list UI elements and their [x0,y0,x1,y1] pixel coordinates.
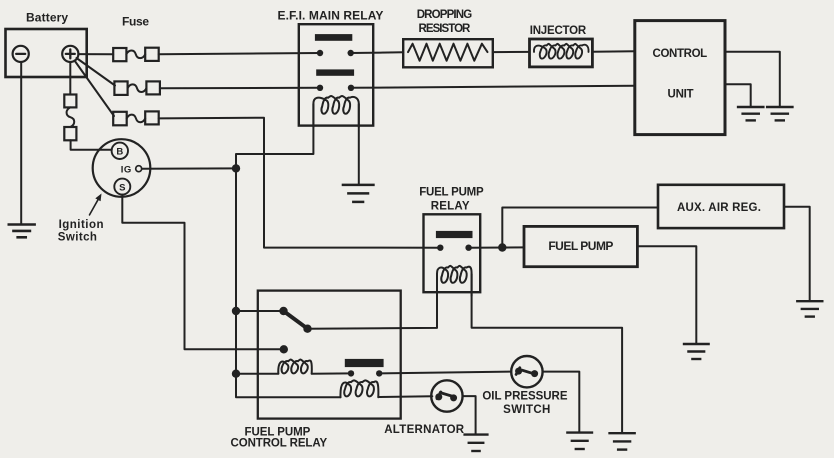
svg-text:ALTERNATOR: ALTERNATOR [384,424,465,436]
svg-text:IG: IG [121,164,132,175]
control unit box [635,21,725,135]
svg-text:INJECTOR: INJECTOR [530,25,588,37]
wire E.F.I. relay to control unit [351,86,635,88]
ignition switch terminal B [112,143,128,159]
E.F.I. main relay label [278,9,385,23]
ground (control unit left) [737,107,765,120]
wire ignition IG to node A [142,167,236,169]
control relay contact dots [348,370,383,376]
fuel pump relay label [419,187,485,213]
ground (alternator) [463,435,488,451]
wire node C to control relay switch [236,310,284,312]
aux air regulator label [677,202,762,214]
svg-text:B: B [116,147,123,158]
alternator contact [435,392,457,401]
svg-text:FUEL PUMP: FUEL PUMP [419,187,485,199]
fuel pump relay box [424,214,481,292]
wire top coil to contact dot [312,372,351,374]
dropping resistor element [408,44,488,61]
control relay switch output dot [303,325,311,333]
wire oil pressure switch to ground [543,372,580,432]
svg-text:Fuse: Fuse [122,15,150,29]
dropping resistor box [403,39,493,67]
svg-text:AUX. AIR REG.: AUX. AIR REG. [677,202,762,214]
ground (fuel pump relay coil) [608,433,636,449]
svg-text:CONTROL: CONTROL [653,48,709,60]
wire node A to E.F.I. relay coil [236,104,313,168]
injector coil [534,44,589,59]
dropping resistor label [417,9,474,35]
wire node A down to control relay [235,168,237,373]
control relay switch blade [284,311,308,329]
wire fuse F3 to fuel pump relay [159,118,441,248]
wire dropping resistor to injector [493,51,530,53]
wire node B to aux air regulator [502,208,658,248]
wire battery positive to fuse F1 [78,53,113,55]
oil pressure switch body [511,356,542,387]
ignition switch body [93,139,151,197]
node C (switch feed junction) [232,307,240,315]
wire fuel pump relay coil left to control relay switch [308,274,438,329]
wire bottom coil to alternator [378,395,432,398]
node B (fuel pump junction) [498,243,506,251]
control relay top coil [278,359,312,373]
wire control relay to oil pressure switch [379,372,511,374]
wire E.F.I. relay coil to ground [358,104,360,185]
ground (battery) [8,225,36,238]
wire fuel pump relay coil right to ground [472,274,622,433]
wire node D to control relay top coil [236,373,278,375]
fuse F2 [114,81,159,95]
E.F.I. main relay contact dots 1 [317,50,354,56]
fuel pump control relay label [231,426,329,449]
svg-text:E.F.I. MAIN RELAY: E.F.I. MAIN RELAY [278,9,385,23]
svg-text:RESISTOR: RESISTOR [419,23,472,35]
svg-text:S: S [119,182,125,193]
ignition switch label arrow [90,194,102,215]
wire ignition S down to control relay [122,195,283,350]
ignition switch terminal IG [121,164,142,175]
wire battery positive to fuse F3 (diagonal) [75,61,115,117]
svg-text:UNIT: UNIT [668,89,695,101]
control relay switch lower contact [280,345,288,353]
wire battery positive down [69,62,71,95]
alternator label [384,424,465,436]
E.F.I. main relay contact bar 1 [315,34,352,41]
wire aux air regulator to ground [784,207,810,301]
fuse F4 (vertical pair) [64,95,76,141]
wire node D to bottom coil [236,374,341,398]
ignition switch label [58,219,105,243]
oil pressure switch label [482,390,568,416]
battery negative terminal [13,46,29,62]
battery positive terminal [62,46,78,62]
wire control unit to ground 1 [725,52,780,107]
fuel pump relay coil [437,266,472,296]
fuel pump box [524,226,637,266]
ground (aux air regulator) [796,301,823,316]
wire alternator to ground [463,396,476,433]
fuel pump label [548,239,614,253]
svg-text:SWITCH: SWITCH [503,404,551,416]
battery label [26,11,69,25]
svg-text:Switch: Switch [58,231,98,243]
E.F.I. main relay coil [313,96,358,127]
ground (fuel pump) [683,344,710,359]
control relay switch pivot [279,307,287,315]
svg-text:Ignition: Ignition [59,219,105,231]
wire fuel pump relay to fuel pump [469,246,524,248]
node D (coil feed junction) [232,370,240,378]
svg-text:RELAY: RELAY [431,200,471,212]
svg-text:FUEL PUMP: FUEL PUMP [245,426,312,438]
svg-text:CONTROL RELAY: CONTROL RELAY [231,438,329,450]
wire battery negative to ground [20,62,22,224]
wire E.F.I. relay to dropping resistor [351,51,404,54]
svg-text:OIL PRESSURE: OIL PRESSURE [482,390,568,402]
ground (control unit right) [766,107,794,120]
ignition switch terminal S [114,179,130,195]
fuel pump relay contact bar [436,231,473,238]
fuse F1 [113,48,159,62]
E.F.I. main relay box [299,24,373,125]
wire fuse F4 to ignition switch B [71,140,112,150]
oil pressure switch contact [515,368,538,378]
alternator body [431,380,462,411]
control relay contact bar [345,359,384,367]
wire fuse F2 to E.F.I. main relay [160,87,320,89]
fuel pump control relay box [258,291,401,419]
E.F.I. main relay contact bar 2 [316,69,354,75]
fuse label [122,15,150,29]
wire fuse F1 to E.F.I. main relay [159,53,320,54]
injector box [530,39,593,67]
svg-text:DROPPING: DROPPING [417,9,474,21]
battery BAT [6,29,87,77]
wire injector to control unit [592,50,634,52]
wire fuel pump to ground [637,246,696,343]
wire control unit to ground 2 [725,84,751,107]
fuse F3 [113,111,159,125]
fuel pump relay contact dots [437,245,472,251]
ground (oil pressure switch) [566,433,593,449]
ground (E.F.I. main relay) [342,185,375,202]
node A (IG junction) [232,164,240,172]
control relay bottom coil [340,380,378,397]
E.F.I. main relay contact dots 2 [317,85,354,91]
control unit label [653,48,709,100]
svg-text:FUEL PUMP: FUEL PUMP [548,239,614,253]
aux air regulator box [658,185,784,228]
injector label [530,25,588,37]
svg-text:Battery: Battery [26,11,69,25]
wire battery positive to fuse F2 (diagonal) [77,58,116,86]
